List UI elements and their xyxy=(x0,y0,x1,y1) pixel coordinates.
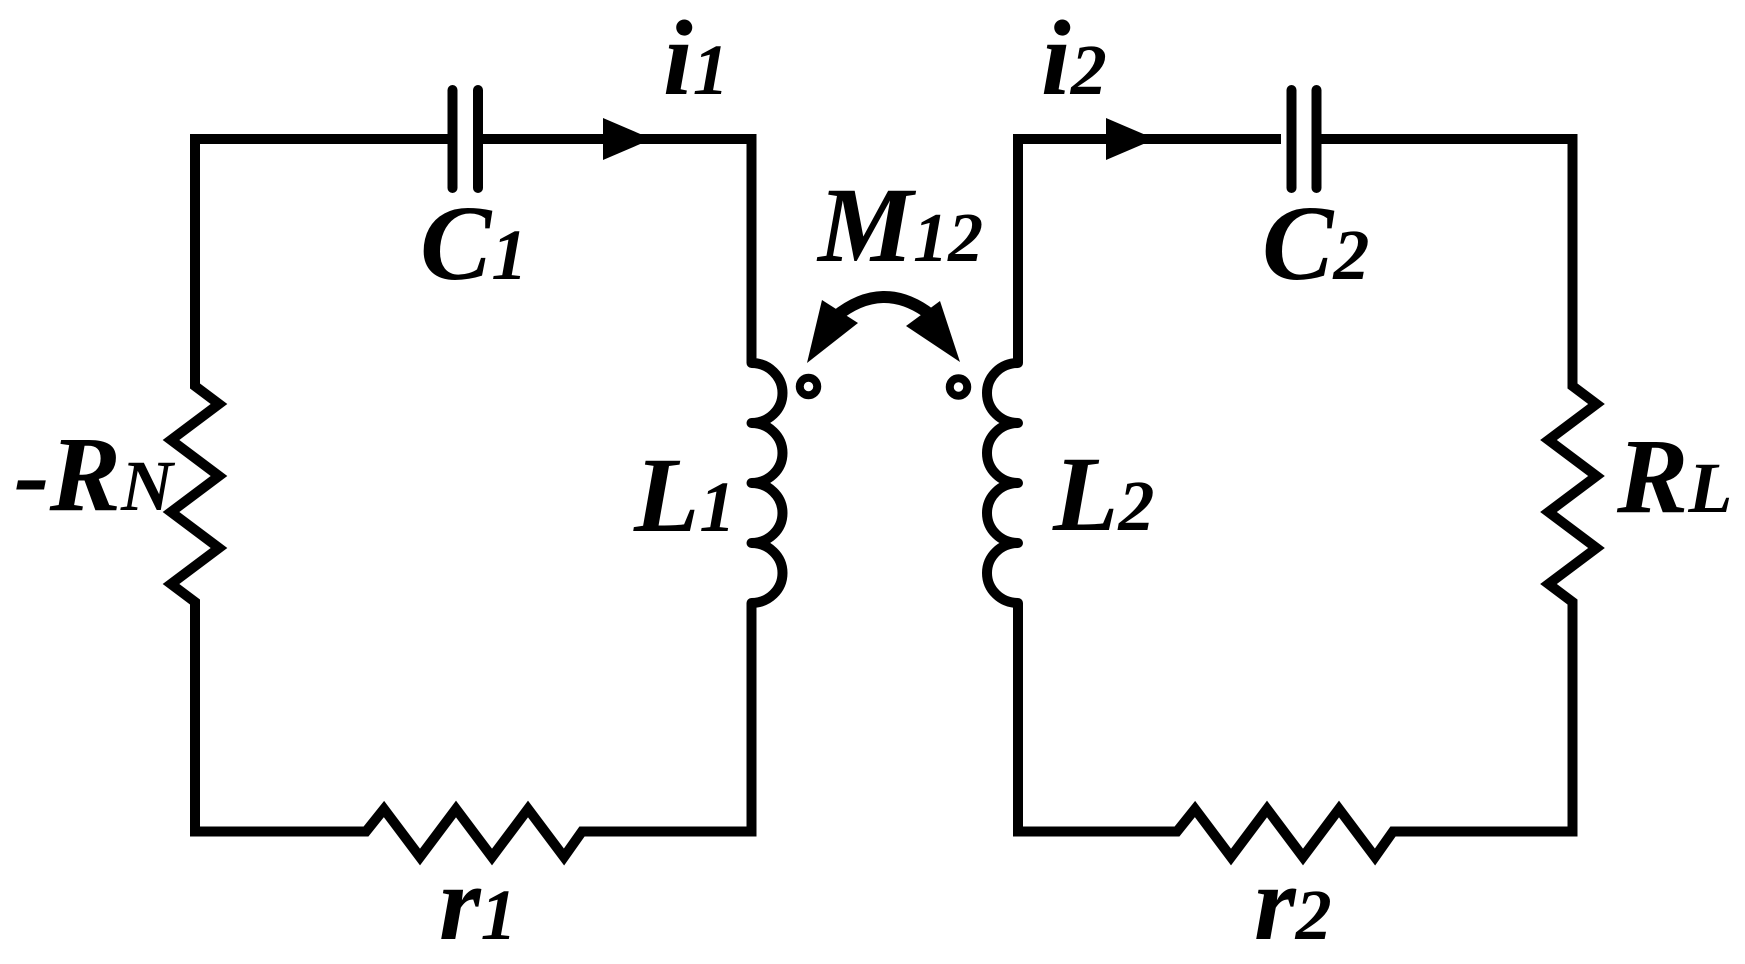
svg-text:M12: M12 xyxy=(816,167,983,285)
wire: right loop bottom-left corner up to L2 bottom xyxy=(1018,603,1177,832)
wire: left loop, left-top frame (from -RN top, up and right to C1 left plate) xyxy=(195,139,448,386)
svg-text:-RN: -RN xyxy=(14,416,176,534)
svg-text:L2: L2 xyxy=(1052,436,1154,554)
capacitor C2 left plate xyxy=(1287,90,1297,188)
capacitor C2 right plate xyxy=(1312,90,1322,188)
capacitor C1 right plate xyxy=(473,90,483,188)
wire: right loop, left side (L2 top up, right along top to C2 left plate) xyxy=(1018,139,1281,363)
capacitor C1 left plate xyxy=(448,90,458,188)
resistor -RN (left side of left loop) xyxy=(171,378,219,610)
svg-text:C1: C1 xyxy=(420,185,527,303)
svg-text:r1: r1 xyxy=(439,845,517,963)
dot mark of L2 winding xyxy=(950,378,968,396)
inductor L2 (4 semicircular turns bulging left) xyxy=(987,356,1018,610)
svg-text:C2: C2 xyxy=(1262,185,1369,303)
svg-text:i2: i2 xyxy=(1041,0,1107,118)
resistor r1 (bottom of left loop) xyxy=(358,809,590,857)
mutual coupling arc right arrowhead xyxy=(906,301,960,362)
svg-text:r2: r2 xyxy=(1254,845,1332,963)
svg-text:i1: i1 xyxy=(663,0,729,118)
arrowhead i1 current direction xyxy=(603,118,652,160)
mutual coupling arc M12 xyxy=(835,297,931,317)
wire: left loop bottom-left corner up to -RN bottom xyxy=(195,602,366,832)
svg-text:L1: L1 xyxy=(633,437,735,555)
dot mark of L1 winding xyxy=(800,378,818,396)
wire: left loop right side below L1 down to bottom-right corner xyxy=(582,603,752,832)
arrowhead i2 current direction xyxy=(1106,118,1155,160)
wire: right loop bottom-right corner xyxy=(1393,602,1573,832)
resistor RL (right side of right loop) xyxy=(1549,378,1597,610)
wire: left loop top right segment (C1 to top-right corner, down to L1) xyxy=(483,139,752,363)
wire: right loop top (right of C2) and right side down to RL xyxy=(1322,139,1573,386)
mutual coupling arc left arrowhead xyxy=(807,300,858,363)
resistor r2 (bottom of right loop) xyxy=(1169,809,1401,857)
svg-text:RL: RL xyxy=(1616,418,1732,536)
inductor L1 (4 semicircular turns bulging right) xyxy=(752,356,783,610)
